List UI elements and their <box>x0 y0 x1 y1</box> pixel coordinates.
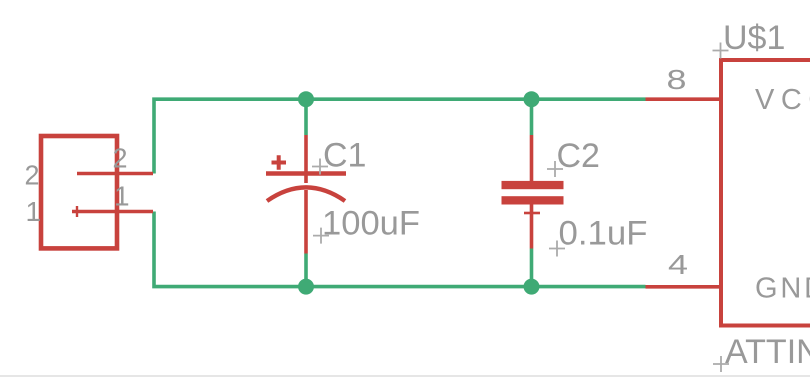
svg-text:U$1: U$1 <box>723 19 785 57</box>
svg-text:GND: GND <box>755 272 810 304</box>
capacitor C1 bottom lead <box>304 190 308 254</box>
wire C2 bottom stub <box>530 249 534 287</box>
capacitor C2 top plate <box>502 181 564 189</box>
svg-text:100uF: 100uF <box>322 205 420 243</box>
capacitor C2 pin origin cross <box>524 212 540 215</box>
capacitor C2 bottom plate <box>502 196 564 204</box>
label ATTINY85 origin cross <box>713 356 729 372</box>
svg-text:VCC: VCC <box>755 84 810 116</box>
label 100uF origin cross <box>313 228 329 244</box>
svg-text:1: 1 <box>26 196 42 227</box>
capacitor C1 plus plate <box>266 171 346 175</box>
wire C1 bottom stub <box>304 254 308 287</box>
label 0.1uF origin cross <box>549 241 565 257</box>
connector pin 2 <box>77 172 153 176</box>
svg-text:8: 8 <box>667 64 687 95</box>
svg-text:1: 1 <box>114 180 130 211</box>
junction at C1/VCC <box>298 91 314 107</box>
svg-text:ATTINY85: ATTINY85 <box>725 333 810 371</box>
IC U1 pin 8 wire <box>646 97 722 101</box>
junction at C2/GND <box>524 279 540 295</box>
connector pin 1 origin cross <box>76 206 78 217</box>
wire bottom bus net GND <box>154 212 646 287</box>
label U$1 origin cross <box>713 43 729 59</box>
IC U1 body <box>721 58 810 328</box>
connector pin 1 <box>72 210 153 214</box>
wire top bus net VCC <box>154 99 646 173</box>
svg-text:4: 4 <box>668 249 688 280</box>
junction at C2/VCC <box>524 91 540 107</box>
connector J1 body <box>41 136 117 248</box>
wire C2 top stub <box>530 99 534 135</box>
IC U1 pin 4 wire <box>646 285 722 289</box>
svg-text:C1: C1 <box>323 137 366 175</box>
capacitor C1 top lead <box>304 135 308 183</box>
wire C1 top stub <box>304 99 308 135</box>
svg-text:0.1uF: 0.1uF <box>559 215 648 253</box>
capacitor C2 top lead <box>530 135 534 181</box>
capacitor C1 curved plate <box>267 187 345 201</box>
label C2 origin cross <box>547 161 563 177</box>
junction at C1/GND <box>298 279 314 295</box>
capacitor C1 plus sign <box>272 155 287 170</box>
bottom separator line <box>0 375 810 377</box>
svg-text:C2: C2 <box>557 137 600 175</box>
svg-text:2: 2 <box>25 159 40 190</box>
label C1 origin cross <box>312 159 328 175</box>
svg-text:2: 2 <box>113 143 128 174</box>
capacitor C2 bottom lead <box>530 205 534 249</box>
